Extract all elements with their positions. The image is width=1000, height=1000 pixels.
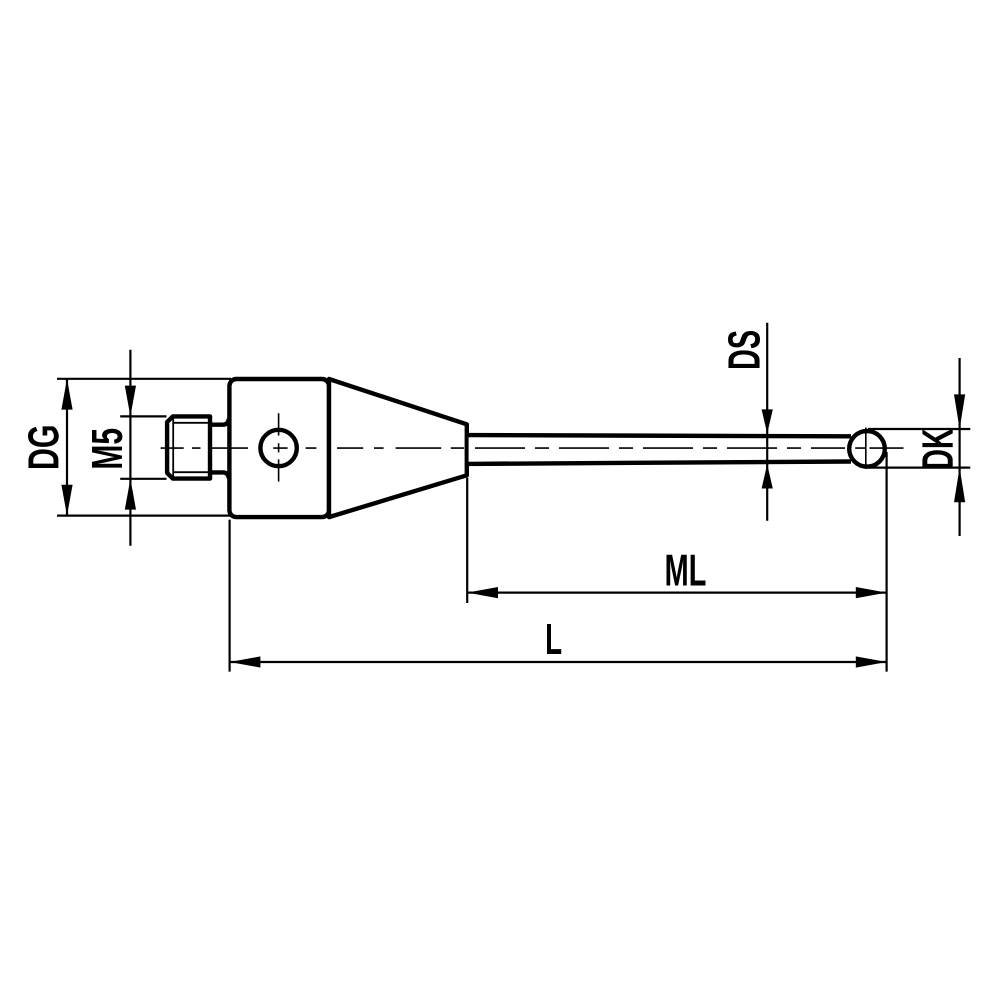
label ML <box>667 555 706 586</box>
extension line ball-right for L and ML <box>885 452 887 672</box>
thread crest thin lines <box>172 417 174 478</box>
dimension DS line with arrows <box>762 323 773 521</box>
extension line cone-end for ML <box>466 478 468 603</box>
dimension M5 line with arrows <box>125 350 136 546</box>
extension line body-left for L <box>229 520 231 672</box>
cross hole <box>260 430 296 466</box>
thread neck groove <box>210 419 229 425</box>
hole vertical centerline <box>278 413 280 481</box>
shaft <box>469 435 851 464</box>
M5 extension lines <box>120 415 166 417</box>
dimension DG line with arrows <box>61 379 72 516</box>
label L <box>547 624 561 654</box>
dimension DK line with arrows <box>954 358 965 536</box>
thread M5 outline <box>167 416 210 478</box>
dimension ML line with arrows <box>467 587 886 598</box>
dimension L line with arrows <box>230 656 887 667</box>
ball tip <box>849 431 885 467</box>
ball vertical centerline <box>865 428 867 470</box>
label DS <box>728 331 760 368</box>
DG extension lines <box>57 378 231 380</box>
label DG <box>28 426 59 468</box>
label M5 <box>92 429 122 468</box>
label DK <box>922 429 952 469</box>
main centerline right part <box>471 447 845 449</box>
cone <box>329 379 467 517</box>
main centerline left part <box>161 447 464 449</box>
body <box>229 379 329 517</box>
DK extension lines <box>868 428 970 430</box>
